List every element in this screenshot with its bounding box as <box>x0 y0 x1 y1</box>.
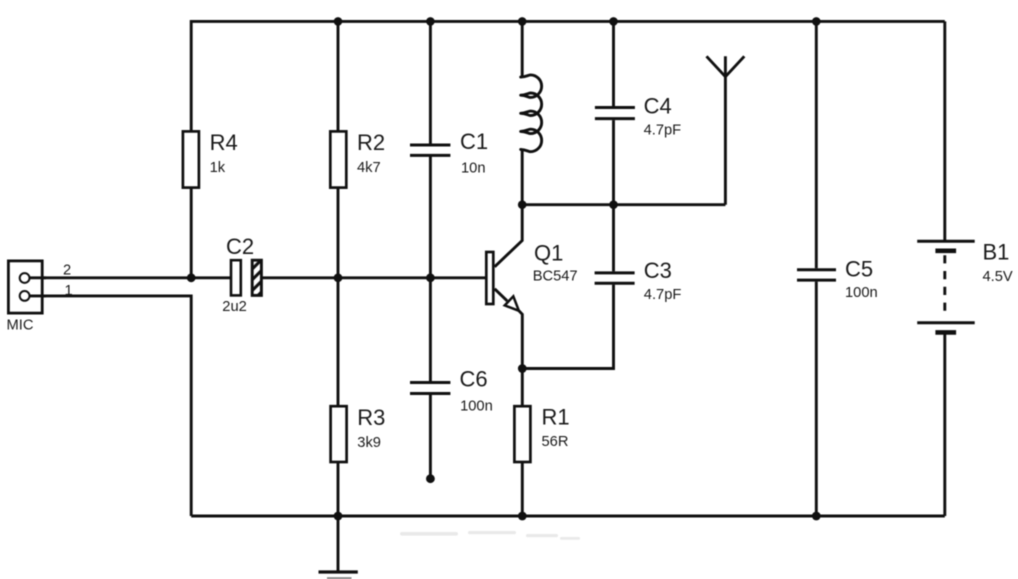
svg-text:C3: C3 <box>644 258 672 283</box>
svg-text:R2: R2 <box>357 130 385 155</box>
svg-text:C6: C6 <box>460 366 488 391</box>
svg-text:R3: R3 <box>357 405 385 430</box>
svg-text:1: 1 <box>65 283 73 299</box>
svg-text:B1: B1 <box>983 240 1010 265</box>
svg-text:C5: C5 <box>845 257 873 282</box>
svg-text:4k7: 4k7 <box>357 160 381 176</box>
svg-text:C4: C4 <box>644 94 672 119</box>
svg-text:Q1: Q1 <box>534 241 563 266</box>
svg-text:1k: 1k <box>210 160 226 176</box>
svg-text:MIC: MIC <box>7 318 34 334</box>
svg-text:C1: C1 <box>460 129 488 154</box>
svg-text:4.7pF: 4.7pF <box>644 122 682 138</box>
svg-text:10n: 10n <box>461 160 486 176</box>
svg-text:2: 2 <box>63 263 71 279</box>
svg-text:BC547: BC547 <box>533 268 578 284</box>
svg-text:3k9: 3k9 <box>357 435 381 451</box>
svg-text:R4: R4 <box>210 130 238 155</box>
svg-text:56R: 56R <box>542 434 569 450</box>
svg-text:2u2: 2u2 <box>222 299 247 315</box>
svg-text:100n: 100n <box>460 399 493 415</box>
svg-text:C2: C2 <box>226 234 254 259</box>
svg-text:4.5V: 4.5V <box>983 269 1013 285</box>
svg-text:4.7pF: 4.7pF <box>644 287 682 303</box>
svg-text:100n: 100n <box>845 285 878 301</box>
svg-text:R1: R1 <box>542 404 570 429</box>
